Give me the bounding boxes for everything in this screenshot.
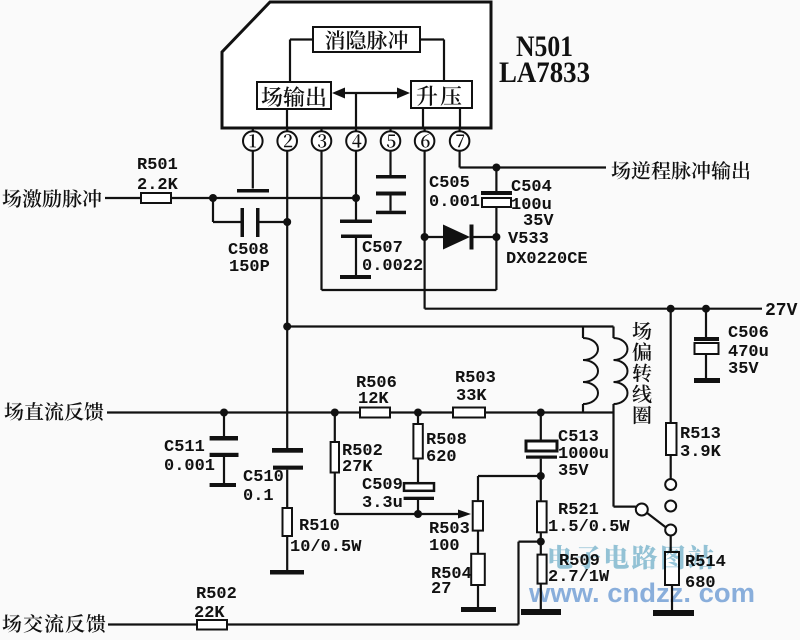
svg-text:R502: R502 (196, 585, 237, 604)
svg-text:33K: 33K (456, 387, 487, 406)
svg-text:C505: C505 (429, 174, 470, 193)
svg-text:0.001: 0.001 (429, 193, 480, 212)
svg-text:C506: C506 (728, 324, 769, 343)
svg-text:C510: C510 (243, 468, 284, 487)
svg-text:620: 620 (426, 448, 457, 467)
svg-text:22K: 22K (194, 604, 225, 623)
svg-text:27V: 27V (765, 301, 798, 321)
svg-text:150P: 150P (229, 258, 270, 277)
svg-text:C509: C509 (362, 476, 403, 495)
svg-text:LA7833: LA7833 (499, 56, 590, 89)
svg-text:35V: 35V (523, 212, 554, 231)
svg-text:R510: R510 (299, 517, 340, 536)
svg-text:www. cndzz. com: www. cndzz. com (528, 578, 755, 608)
svg-text:10/0.5W: 10/0.5W (290, 538, 362, 557)
svg-text:3.3u: 3.3u (362, 494, 403, 513)
svg-text:3.9K: 3.9K (680, 443, 722, 462)
svg-text:1.5/0.5W: 1.5/0.5W (548, 518, 630, 537)
svg-text:DX0220CE: DX0220CE (506, 250, 588, 269)
svg-text:R513: R513 (680, 425, 721, 444)
svg-text:27K: 27K (342, 458, 373, 477)
svg-text:C504: C504 (511, 178, 552, 197)
svg-text:35V: 35V (728, 360, 759, 379)
svg-text:C507: C507 (362, 239, 403, 258)
svg-text:R503: R503 (455, 369, 496, 388)
svg-text:27: 27 (431, 580, 451, 599)
svg-text:R501: R501 (137, 156, 178, 175)
svg-text:100: 100 (429, 537, 460, 556)
svg-text:C511: C511 (164, 438, 205, 457)
svg-text:0.001: 0.001 (164, 457, 215, 476)
svg-text:0.0022: 0.0022 (362, 257, 423, 276)
svg-text:0.1: 0.1 (243, 487, 274, 506)
svg-text:35V: 35V (558, 462, 589, 481)
svg-text:2.2K: 2.2K (137, 176, 179, 195)
svg-text:12K: 12K (358, 390, 389, 409)
svg-text:V533: V533 (508, 230, 549, 249)
